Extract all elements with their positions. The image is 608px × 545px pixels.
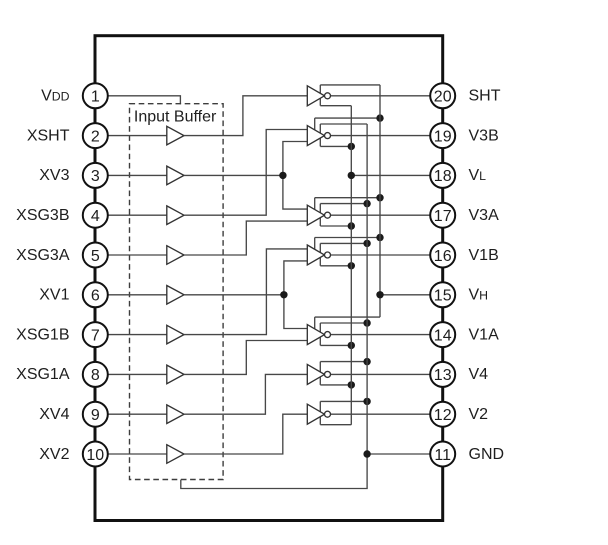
wire V4 driver GND supply [320, 361, 367, 363]
pin 16 (V1B) [430, 243, 455, 268]
svg-text:GND: GND [469, 446, 505, 463]
driver V3A inverter [307, 205, 330, 225]
wire V3A VH stem [314, 198, 316, 210]
pin 7 (XSG1B) [83, 322, 108, 347]
svg-text:V1B: V1B [469, 247, 499, 264]
pin 8 (XSG1A) [83, 362, 108, 387]
input buffer XV3 [167, 166, 184, 185]
svg-text:XSG3A: XSG3A [16, 247, 70, 264]
wire node XV1 to V1B lower input [284, 261, 307, 295]
driver V2 inverter [307, 404, 330, 424]
driver V4 inverter [307, 364, 330, 384]
pin 19 (V3B) [430, 123, 455, 148]
wire V4 supply stem [319, 362, 321, 385]
wire V2 driver GND supply [320, 400, 367, 402]
wire V1B driver GND supply [320, 242, 367, 244]
wire V3B driver VH supply [315, 117, 380, 119]
wire V4 driver VL supply [320, 384, 351, 386]
node V3A VL junction [348, 222, 355, 229]
wire SHT driver VL supply [320, 105, 351, 107]
pin 2 (XSHT) [83, 123, 108, 148]
svg-text:V1A: V1A [469, 326, 500, 343]
pin 4 (XSG3B) [83, 203, 108, 228]
svg-text:11: 11 [434, 447, 451, 464]
node V3A GND junction [363, 200, 370, 207]
svg-text:XV4: XV4 [39, 406, 69, 423]
wire XV2 buffer to V2 driver [184, 414, 307, 454]
svg-text:XV1: XV1 [39, 287, 69, 304]
wire XSG3B pin4 to buffer [108, 214, 167, 216]
input buffer XSG1B [167, 325, 184, 344]
driver V3B inverter [307, 126, 330, 146]
input buffer XV1 [167, 286, 184, 305]
wire VDD pin1 to Input Buffer block [108, 96, 181, 104]
svg-text:20: 20 [434, 89, 452, 106]
node VL junction [348, 172, 355, 179]
wire VH rail to pin15 [380, 294, 430, 296]
wire VL rail to pin18 [351, 174, 430, 176]
svg-text:15: 15 [434, 288, 452, 305]
VL rail [350, 106, 352, 425]
GND rail into Input Buffer block [181, 124, 367, 489]
wire XV3 pin3 to buffer [108, 174, 167, 176]
svg-text:Input Buffer: Input Buffer [134, 108, 217, 125]
svg-text:XSG1B: XSG1B [16, 326, 69, 343]
wire V1A driver GND supply [320, 322, 367, 324]
svg-text:VDD: VDD [41, 88, 70, 105]
wire V2 driver VL supply [320, 424, 351, 426]
wire V1A supply stem [319, 323, 321, 345]
node V3A VH junction [376, 194, 383, 201]
driver SHT inverter [307, 86, 330, 106]
wire XSG1A buffer to V1A lower input [184, 341, 307, 375]
pin 13 (V4) [430, 362, 455, 387]
node V1B GND junction [363, 240, 370, 247]
driver V1B inverter [307, 245, 330, 265]
Input Buffer dashed box [130, 104, 224, 480]
wire V2 supply stem [319, 401, 321, 424]
input buffer XSG3A [167, 246, 184, 265]
pin 10 (XV2) [83, 442, 108, 467]
svg-text:XV2: XV2 [39, 446, 69, 463]
wire XSG1B buffer to V1B upper input [184, 249, 307, 335]
svg-text:10: 10 [86, 447, 104, 464]
node V1A VL junction [348, 342, 355, 349]
wire V3B VH stem [314, 118, 316, 130]
wire XV4 pin9 to buffer [108, 413, 167, 415]
wire XV4 buffer to V4 driver [184, 374, 307, 414]
svg-text:8: 8 [91, 367, 100, 384]
node V3B VH junction [376, 114, 383, 121]
wire GND rail to pin11 [367, 453, 430, 455]
wire XV1 pin6 to buffer [108, 294, 167, 296]
wire XSG3A buffer to V3A lower input [184, 221, 307, 255]
svg-text:4: 4 [91, 208, 100, 225]
node VH junction [376, 291, 383, 298]
pin 12 (V2) [430, 402, 455, 427]
wire V1A driver VL supply [320, 344, 351, 346]
wire V1B driver VH supply [315, 237, 380, 239]
pin 18 (VL) [430, 163, 455, 188]
input buffer XSG3B [167, 206, 184, 225]
wire V3A supply stem [319, 204, 321, 226]
IC package outline [95, 36, 443, 521]
wire XSG1B pin7 to buffer [108, 334, 167, 336]
wire V3B supply stem [319, 124, 321, 146]
node GND junction [363, 450, 370, 457]
wire V1B supply stem [319, 243, 321, 265]
node V3B VL junction [348, 143, 355, 150]
pin 5 (XSG3A) [83, 243, 108, 268]
wire node XV3 to V3A upper input [283, 175, 307, 209]
wire XSHT buffer to SHT driver [184, 96, 307, 136]
wire node XV1 to V1A upper input [284, 295, 307, 329]
svg-text:XSHT: XSHT [27, 127, 70, 144]
wire V1A driver VH supply [315, 316, 380, 318]
svg-text:V2: V2 [469, 406, 489, 423]
wire XV3 buffer to node XV3 [184, 174, 283, 176]
svg-text:12: 12 [434, 407, 452, 424]
svg-text:19: 19 [434, 128, 452, 145]
input buffer XSG1A [167, 365, 184, 384]
input buffer XV4 [167, 405, 184, 424]
wire XSG3A pin5 to buffer [108, 254, 167, 256]
pin 9 (XV4) [83, 402, 108, 427]
svg-text:6: 6 [91, 288, 100, 305]
svg-text:V3B: V3B [469, 127, 499, 144]
wire XSG1A pin8 to buffer [108, 373, 167, 375]
wire V1B driver VL supply [320, 265, 351, 267]
node V2 GND junction [363, 398, 370, 405]
wire node XV3 to V3B lower input [283, 142, 307, 176]
node V1B VH junction [376, 234, 383, 241]
node V4 VL junction [348, 381, 355, 388]
svg-text:7: 7 [91, 327, 100, 344]
pin 3 (XV3) [83, 163, 108, 188]
svg-text:1: 1 [91, 89, 100, 106]
pin 17 (V3A) [430, 203, 455, 228]
pin 11 (GND) [430, 442, 455, 467]
wire V3A driver VH supply [315, 197, 380, 199]
svg-text:XV3: XV3 [39, 167, 69, 184]
pin 15 (VH) [430, 282, 455, 307]
svg-text:SHT: SHT [469, 88, 501, 105]
wire V1A driver output to pin [331, 334, 431, 336]
svg-text:16: 16 [434, 248, 452, 265]
pin 20 (SHT) [430, 83, 455, 108]
node V4 GND junction [363, 358, 370, 365]
wire V2 driver output to pin [331, 413, 431, 415]
wire V4 driver output to pin [331, 373, 431, 375]
svg-text:14: 14 [434, 327, 452, 344]
node V1B VL junction [348, 262, 355, 269]
input buffer XSHT [167, 126, 184, 145]
driver V1A inverter [307, 325, 330, 345]
wire V1B driver output to pin [331, 254, 431, 256]
wire V3B driver GND supply [320, 123, 367, 125]
pin 14 (V1A) [430, 322, 455, 347]
svg-text:2: 2 [91, 128, 100, 145]
wire SHT driver output to pin [331, 95, 431, 97]
wire XV2 pin10 to buffer [108, 453, 167, 455]
pin 6 (XV1) [83, 282, 108, 307]
wire XSHT pin2 to buffer [108, 135, 167, 137]
svg-text:V3A: V3A [469, 207, 500, 224]
pin 1 (VDD) [83, 83, 108, 108]
svg-text:V4: V4 [469, 366, 489, 383]
svg-text:VH: VH [469, 287, 489, 304]
svg-text:XSG3B: XSG3B [16, 207, 69, 224]
wire SHT driver VH supply [320, 84, 380, 86]
wire V1A VH stem [314, 317, 316, 329]
node V1A GND junction [363, 319, 370, 326]
wire V3B driver VL supply [320, 145, 351, 147]
svg-text:3: 3 [91, 168, 100, 185]
svg-text:5: 5 [91, 248, 100, 265]
wire V3A driver VL supply [320, 225, 351, 227]
node XV1 junction [280, 291, 287, 298]
svg-text:VL: VL [469, 167, 487, 184]
wire XV1 buffer to node XV1 [184, 294, 284, 296]
svg-text:9: 9 [91, 407, 100, 424]
input buffer XV2 [167, 445, 184, 464]
svg-text:17: 17 [434, 208, 452, 225]
wire V3A driver GND supply [320, 203, 367, 205]
svg-text:18: 18 [434, 168, 452, 185]
wire SHT supply stem [319, 85, 321, 106]
wire V3A driver output to pin [331, 214, 431, 216]
wire V3B driver output to pin [331, 135, 431, 137]
VH rail [379, 85, 381, 317]
wire XSG3B buffer to V3B upper input [184, 130, 307, 216]
wire V1B VH stem [314, 238, 316, 250]
svg-text:13: 13 [434, 367, 452, 384]
svg-text:XSG1A: XSG1A [16, 366, 70, 383]
node XV3 junction [279, 172, 286, 179]
